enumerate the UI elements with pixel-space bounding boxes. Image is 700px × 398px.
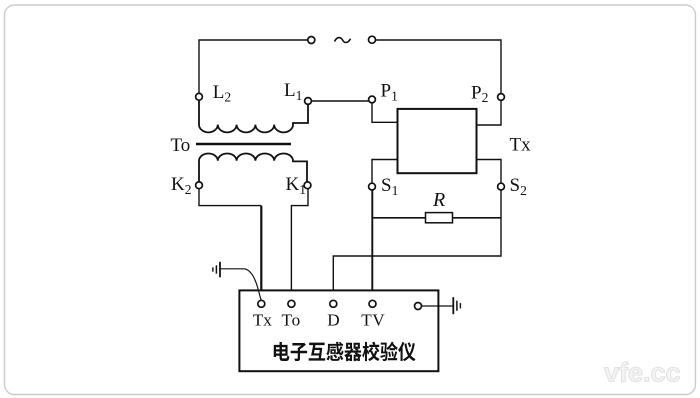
node: source right terminal bbox=[369, 36, 376, 43]
node Tx terminal bbox=[258, 300, 265, 307]
wire: resistor branch right to S2 column bbox=[453, 217, 502, 219]
transformer To: secondary winding (bottom coil) bbox=[199, 153, 307, 185]
resistor R body bbox=[426, 213, 453, 223]
node spare ground terminal bbox=[415, 303, 422, 310]
svg-text:To: To bbox=[282, 311, 302, 330]
left ground symbol bbox=[213, 262, 220, 277]
wire: top-left from source left terminal to L2 column bbox=[199, 40, 311, 97]
node K2 bbox=[196, 182, 203, 189]
wire: L1 to P1 bbox=[308, 100, 372, 102]
wire: Tx box left to S1 bbox=[372, 160, 398, 187]
svg-text:TV: TV bbox=[361, 311, 385, 330]
node L1 bbox=[305, 98, 312, 105]
AC source tilde bbox=[335, 38, 351, 43]
transformer To: core bar bbox=[196, 143, 291, 146]
wire: Tx box right to S2 bbox=[477, 160, 502, 187]
node TV terminal bbox=[369, 300, 376, 307]
node P2 bbox=[498, 94, 505, 101]
node P1 bbox=[369, 96, 376, 103]
node D terminal bbox=[330, 300, 337, 307]
node S1 bbox=[369, 183, 376, 190]
wire: K1 to To terminal bbox=[291, 185, 308, 304]
node S2 bbox=[498, 183, 505, 190]
wire: P1 stem into Tx box bbox=[372, 100, 398, 123]
left ground wire to Tx terminal bbox=[220, 269, 261, 301]
node L2 bbox=[196, 93, 203, 100]
wire: source right terminal to P2 column bbox=[372, 40, 501, 97]
svg-text:D: D bbox=[327, 311, 339, 330]
transformer To: primary winding (top coil) bbox=[199, 96, 308, 132]
svg-text:To: To bbox=[171, 135, 191, 156]
wire: S1 down to TV terminal bbox=[371, 187, 373, 305]
svg-text:Tx: Tx bbox=[510, 134, 532, 155]
wire: S2 down, left, down to D terminal bbox=[333, 187, 501, 305]
svg-text:Tx: Tx bbox=[253, 311, 272, 330]
wire: K2 to Tx terminal (horizontal) bbox=[199, 185, 261, 206]
node To terminal bbox=[288, 300, 295, 307]
electronic transformer calibrator box bbox=[239, 290, 438, 371]
wire: resistor branch left bbox=[372, 217, 425, 219]
wire: P2 stem into Tx box bbox=[477, 97, 502, 125]
right ground symbol bbox=[453, 297, 460, 314]
label: calibrator Chinese text 电子互感器校验仪 bbox=[274, 342, 416, 362]
node K1 bbox=[304, 182, 311, 189]
svg-text:vfe.cc: vfe.cc bbox=[604, 358, 681, 388]
wire: K2 vertical thick drop to Tx terminal bbox=[260, 206, 262, 304]
node: source left terminal bbox=[308, 37, 315, 44]
transformer Tx box bbox=[398, 109, 477, 173]
svg-text:R: R bbox=[432, 189, 445, 211]
terminal circles bbox=[196, 36, 505, 309]
right ground wire from spare terminal bbox=[421, 305, 453, 307]
